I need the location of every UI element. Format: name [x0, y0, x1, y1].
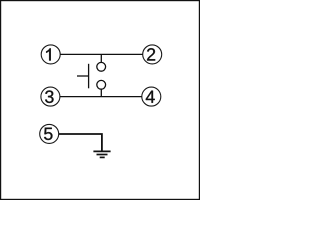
wire stub top contact: [100, 54, 102, 62]
terminal 4: [142, 87, 161, 106]
terminal 3: [41, 87, 60, 106]
pushbutton actuator: [77, 64, 89, 89]
wire terminal5 to ground: [59, 134, 102, 151]
terminal 5: [40, 124, 59, 143]
wire terminal1 to terminal2: [60, 53, 143, 55]
terminal 1: [41, 45, 60, 64]
switch contact top (normally open): [97, 62, 106, 71]
wire stub bottom contact: [100, 89, 102, 96]
terminal 2: [143, 45, 162, 64]
ground: [93, 151, 110, 157]
switch contact bottom (normally open): [97, 80, 106, 89]
wire terminal3 to terminal4: [60, 96, 142, 98]
